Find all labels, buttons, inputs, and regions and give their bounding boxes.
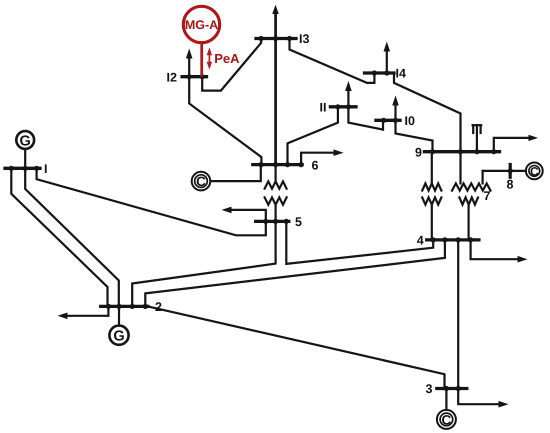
load arrow at bus 3 [458,389,500,405]
svg-text:6: 6 [312,158,319,172]
load arrow at bus 12 [188,58,190,77]
svg-text:I: I [44,162,47,176]
svg-text:II: II [320,101,327,115]
wire G1 to bus 1 [24,149,26,168]
generator G1 circle [16,131,34,149]
condenser C3 circle [437,410,456,429]
node dots bus 4 [431,237,436,242]
node dots bus 14 [372,70,377,75]
arrowhead load bus 5 (left) [222,207,232,214]
condenser C6 circle [192,172,211,191]
load arrow at bus 14 [386,50,388,73]
wire G2 to bus 2 [118,306,120,325]
svg-text:2: 2 [155,300,162,314]
arrowhead load bus 12 (up) [186,49,193,59]
node dots bus 11 [335,104,340,109]
wire line 6-13 with load arrow above bus 13 [274,14,277,165]
svg-text:8: 8 [507,177,514,191]
node dot bus 8 [508,168,513,173]
wire line 9-14 [394,73,461,152]
node dots bus 13 [259,36,264,41]
bus 13 bar [256,37,296,40]
condenser C8 circle [526,163,543,180]
bus 9 bar [424,150,499,153]
node dots bus 12 [187,74,192,79]
transformer 4-7 lower winding [459,197,478,204]
svg-text:MG-A: MG-A [185,18,218,32]
arrowhead load bus 3 (right) [499,401,509,408]
bus 8 tick bar [509,165,512,178]
bus 4 bar [427,238,479,241]
node dots bus 1 [9,166,14,171]
svg-text:C: C [530,164,539,178]
node dots bus 3 [444,386,449,391]
arrowhead load bus 13 (up) [272,5,279,14]
wire MG-A to bus 12 (red) [200,43,203,77]
arrowhead load bus 10 (up) [392,96,399,106]
wire line 1-5 [37,168,266,235]
svg-text:G: G [113,329,124,345]
shunt capacitor symbol at bus 9 [476,125,478,152]
wire line 12-13 [202,39,261,91]
transformer 5-6 upper winding [275,165,277,182]
bus 12 bar [182,75,206,78]
svg-text:4: 4 [417,234,424,248]
arrowhead load bus 4 (right) [518,256,528,263]
wire condenser C6 to bus 6 [211,165,261,182]
svg-text:9: 9 [415,145,422,159]
svg-text:7: 7 [484,189,491,203]
arrowhead load bus 14 (up) [384,42,391,52]
microgrid MG-A circle (red) [183,6,219,42]
wire line 9-10 [396,120,433,151]
wire line 2-5 [132,221,275,306]
arrowhead load bus 6 (right) [334,149,344,156]
svg-text:I0: I0 [405,114,415,128]
arrowhead load bus 11 (up) [345,81,352,91]
generator G2 circle [109,326,128,345]
transformer 4-9 upper winding [431,152,433,184]
node dots bus 10 [381,118,386,123]
load arrow at bus 2 [66,306,108,315]
wire condenser C3 to bus 3 [445,389,447,411]
wire line 2-4 [145,240,445,307]
power exchange arrow PeA (red, double-headed) [207,47,212,70]
load arrow at bus 4 [471,240,519,259]
load arrow at bus 5 [228,210,266,222]
svg-text:I2: I2 [167,70,177,84]
bus 14 bar [365,71,395,74]
wire line 3-4 [457,240,459,389]
wire line 7-8 to condenser C8 [483,170,526,172]
svg-text:I3: I3 [299,32,309,46]
node dots bus 6 [258,162,263,167]
svg-text:3: 3 [426,382,433,396]
arrowhead load bus 9 (right) [529,135,539,141]
wire line 1-2 circuit a [11,168,107,306]
bus 3 bar [437,387,467,390]
svg-text:C: C [442,412,452,427]
load arrow at bus 9 [494,138,528,152]
bus 1 bar [5,167,40,170]
bus 6 bar [253,163,302,166]
arrowhead load bus 2 (left) [58,313,68,320]
load arrow at bus 11 [347,90,349,107]
node dots bus 5 [263,219,268,224]
transformer 4-9 lower winding [422,197,441,204]
node dots bus 2 [106,304,111,309]
wire line 10-11 [348,107,383,130]
svg-text:PeA: PeA [214,51,240,66]
wire line 13-14 [290,39,375,83]
svg-text:G: G [20,133,31,149]
load arrow at bus 10 [394,104,396,120]
bus 11 bar [330,105,356,108]
wire line 1-2 circuit b [25,168,119,306]
bus 5 bar [256,220,289,223]
bus 2 bar [101,305,148,308]
transformer 7-9 upper winding [459,152,461,184]
wire line 6-12 [189,77,261,165]
wire line 4-5 [286,221,433,264]
svg-text:I4: I4 [396,67,406,81]
wire line 2-3 [148,306,445,388]
load arrow at bus 6 [301,153,335,165]
svg-text:5: 5 [295,215,302,229]
node dots bus 9 [430,149,435,154]
transformer 5-6 lower winding [265,197,287,204]
svg-text:C: C [196,174,206,189]
bus 10 bar [376,119,400,122]
wire line 6-11 [288,107,338,165]
